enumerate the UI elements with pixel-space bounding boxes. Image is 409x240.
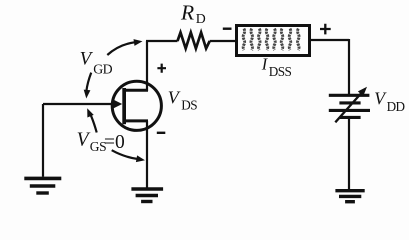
wire ammeter to top-right corner	[310, 39, 350, 41]
ground right bar 3	[345, 200, 355, 203]
svg-text:DS: DS	[181, 98, 197, 113]
ground left bar 1	[24, 177, 61, 181]
ground left bar 3	[36, 191, 49, 194]
ground left bar 2	[30, 184, 56, 187]
battery plate short	[339, 101, 360, 104]
svg-text:V: V	[80, 49, 94, 70]
ammeter hatch bar 5	[274, 29, 276, 50]
svg-text:D: D	[196, 11, 206, 26]
arrow V_GS to source head	[136, 155, 145, 162]
svg-text:V: V	[77, 130, 91, 151]
transistor channel bar	[122, 88, 126, 124]
ground middle bar 1	[131, 187, 163, 190]
battery variable arrow shaft	[335, 93, 361, 122]
battery plate long bottom	[329, 109, 370, 112]
arrow V_GD to gate shaft	[86, 73, 91, 91]
svg-text:DD: DD	[387, 99, 405, 114]
svg-text:DSS: DSS	[269, 64, 292, 79]
battery plate short bottom	[340, 116, 361, 119]
wire source vertical	[146, 121, 148, 188]
transistor source inner lead	[124, 119, 148, 122]
transistor gate arrowhead	[113, 100, 122, 109]
wire right vertical upper	[348, 39, 350, 95]
svg-text:=0: =0	[104, 132, 125, 153]
ground middle bar 3	[141, 200, 152, 203]
svg-text:GD: GD	[93, 62, 112, 77]
wire left vertical	[42, 104, 44, 177]
arrow V_GD to gate head	[84, 90, 91, 99]
ammeter hatch bar 3	[259, 29, 261, 50]
minus sign left of ammeter	[223, 28, 232, 30]
minus sign at source	[157, 132, 166, 134]
ground right bar 1	[335, 189, 364, 192]
ammeter I_DSS box	[237, 26, 310, 56]
arrow V_GD to drain corner head	[134, 39, 143, 46]
svg-text:R: R	[180, 1, 194, 25]
svg-text:V: V	[168, 87, 181, 107]
wire gate horizontal	[43, 103, 114, 105]
wire drain vertical	[146, 41, 148, 91]
battery V_DD plate long top	[329, 94, 370, 97]
plus sign right of ammeter	[320, 24, 331, 35]
transistor Q1 JFET circle	[112, 81, 161, 130]
ground middle bar 2	[136, 194, 158, 197]
ammeter hatch bar 6	[281, 29, 283, 50]
ammeter hatch bar 2	[251, 29, 253, 50]
ammeter hatch bar 1	[243, 29, 245, 50]
resistor R1 zigzag body	[178, 33, 210, 49]
ammeter hatch bar 7	[289, 29, 291, 50]
wire right vertical lower	[348, 117, 350, 189]
wire resistor to ammeter box	[210, 40, 236, 42]
ammeter hatch bar 4	[266, 29, 268, 50]
arrow V_GS to gate shaft	[90, 114, 97, 133]
svg-text:V: V	[374, 88, 387, 108]
battery variable arrowhead	[358, 87, 367, 96]
arrow V_GS to source shaft	[112, 150, 137, 159]
plus sign at drain	[157, 64, 166, 73]
arrow V_GS to gate head	[87, 108, 94, 117]
arrow V_GD to drain corner shaft	[107, 42, 134, 55]
ground right bar 2	[339, 195, 361, 198]
wire top-left from drain corner to resistor	[146, 40, 178, 42]
ammeter hatch bar 8	[298, 29, 300, 50]
svg-text:I: I	[261, 55, 269, 74]
transistor drain inner lead	[124, 89, 148, 92]
